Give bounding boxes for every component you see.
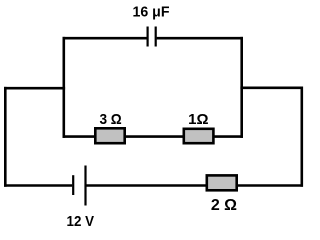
wire left branch (4, 87, 65, 90)
resistor R2 1Ω (184, 129, 214, 143)
wire middle horizontal (through R1,R2) (63, 135, 244, 138)
battery V1 12 V (73, 166, 85, 206)
wire inner-right vertical (240, 37, 243, 138)
resistor R3 2Ω (207, 175, 237, 190)
wire bottom-right segment (from battery through R3) (86, 184, 304, 187)
wire top-left segment (to capacitor) (63, 37, 147, 40)
svg-text:2 Ω: 2 Ω (211, 197, 237, 214)
capacitor C1 16 µF (148, 27, 156, 47)
svg-text:12 V: 12 V (67, 214, 95, 229)
wire outer-left vertical (4, 87, 7, 187)
wire right branch (240, 87, 303, 90)
wire inner-left vertical (62, 37, 65, 138)
wire outer-right vertical (300, 87, 303, 187)
wire top-right segment (from capacitor) (157, 37, 243, 40)
svg-text:16 μF: 16 μF (133, 3, 170, 20)
wire bottom-left segment (to battery) (4, 184, 72, 187)
svg-text:1Ω: 1Ω (188, 111, 208, 128)
svg-text:3 Ω: 3 Ω (99, 111, 121, 128)
resistor R1 3Ω (95, 128, 124, 143)
